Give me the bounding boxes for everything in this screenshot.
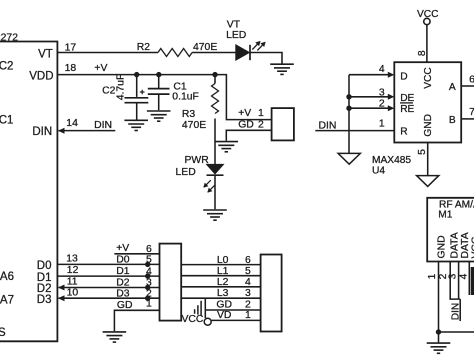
svg-text:5: 5 <box>417 149 428 155</box>
svg-text:1: 1 <box>245 310 251 321</box>
svg-text:VCC: VCC <box>182 314 204 325</box>
svg-text:C2: C2 <box>102 86 116 97</box>
svg-text:VT: VT <box>38 48 53 60</box>
svg-text:18: 18 <box>65 63 77 74</box>
svg-text:4: 4 <box>146 266 152 277</box>
svg-text:GD: GD <box>238 120 254 131</box>
svg-text:LED: LED <box>226 30 246 41</box>
svg-text:D: D <box>400 71 407 82</box>
svg-text:14: 14 <box>66 118 78 129</box>
svg-text:R3: R3 <box>182 109 196 120</box>
svg-text:L3: L3 <box>217 288 229 299</box>
svg-text:DIN: DIN <box>319 120 337 131</box>
svg-text:1: 1 <box>427 273 438 279</box>
svg-text:CA6: CA6 <box>0 271 14 283</box>
svg-text:6: 6 <box>245 255 251 266</box>
svg-text:13: 13 <box>66 253 78 264</box>
svg-text:GND: GND <box>436 235 447 258</box>
svg-text:DIN: DIN <box>451 303 462 321</box>
svg-text:RE: RE <box>400 104 414 115</box>
svg-text:DIN: DIN <box>32 126 52 138</box>
svg-text:2: 2 <box>379 98 385 109</box>
svg-text:R: R <box>400 126 407 137</box>
svg-text:3: 3 <box>245 288 251 299</box>
svg-text:1: 1 <box>379 118 385 129</box>
svg-text:D3: D3 <box>116 288 130 299</box>
svg-text:2: 2 <box>258 120 264 131</box>
svg-text:17: 17 <box>65 42 77 53</box>
svg-text:10: 10 <box>67 287 79 298</box>
svg-text:D3: D3 <box>37 294 52 306</box>
svg-text:R2: R2 <box>137 42 151 53</box>
svg-text:6: 6 <box>469 74 474 85</box>
svg-text:7: 7 <box>469 107 474 118</box>
svg-text:4: 4 <box>245 277 251 288</box>
svg-text:3: 3 <box>448 273 459 279</box>
svg-text:L0: L0 <box>217 255 229 266</box>
svg-text:VT: VT <box>227 19 241 30</box>
svg-text:+V: +V <box>116 243 129 254</box>
svg-text:M1: M1 <box>438 209 452 220</box>
svg-text:6: 6 <box>146 244 152 255</box>
svg-text:CA7: CA7 <box>0 294 14 306</box>
svg-text:0.1uF: 0.1uF <box>172 91 199 102</box>
svg-text:DE: DE <box>400 93 414 104</box>
svg-text:VCC: VCC <box>423 67 434 89</box>
svg-text:8: 8 <box>417 50 428 56</box>
svg-text:D1: D1 <box>37 272 52 284</box>
svg-text:GD: GD <box>117 300 133 311</box>
svg-text:VD: VD <box>217 310 231 321</box>
svg-text:1: 1 <box>146 299 152 310</box>
svg-text:GND: GND <box>423 114 434 137</box>
svg-text:11: 11 <box>67 277 78 288</box>
svg-text:D0: D0 <box>116 255 130 266</box>
svg-text:DIN: DIN <box>94 120 112 131</box>
svg-text:5: 5 <box>146 255 152 266</box>
svg-text:5: 5 <box>245 266 251 277</box>
svg-text:A: A <box>449 82 456 93</box>
svg-text:3: 3 <box>146 278 152 289</box>
svg-text:SC2: SC2 <box>0 61 13 73</box>
svg-text:D2: D2 <box>116 278 130 289</box>
svg-text:DATA: DATA <box>460 232 471 258</box>
svg-text:1: 1 <box>258 108 264 119</box>
svg-text:VCC: VCC <box>417 9 439 20</box>
svg-text:VDD: VDD <box>29 70 53 82</box>
svg-text:12: 12 <box>67 265 79 276</box>
svg-text:U4: U4 <box>372 165 385 176</box>
svg-text:B: B <box>449 115 456 126</box>
svg-text:DATA: DATA <box>449 232 460 258</box>
svg-text:SC1: SC1 <box>0 115 13 127</box>
svg-text:4: 4 <box>459 273 470 279</box>
svg-text:LED: LED <box>176 167 196 178</box>
svg-text:VCC: VCC <box>470 236 474 258</box>
svg-text:4.7uF: 4.7uF <box>116 74 127 101</box>
svg-text:D1: D1 <box>116 266 130 277</box>
svg-text:L2: L2 <box>217 277 229 288</box>
svg-text:470E: 470E <box>182 120 206 131</box>
svg-text:S: S <box>0 327 6 339</box>
svg-text:+V: +V <box>238 108 251 119</box>
svg-text:PT2272: PT2272 <box>0 33 18 44</box>
svg-text:4: 4 <box>379 64 385 75</box>
svg-text:PWR: PWR <box>185 155 210 166</box>
svg-text:+V: +V <box>94 63 107 74</box>
svg-text:L1: L1 <box>217 266 229 277</box>
svg-text:3: 3 <box>379 87 385 98</box>
svg-text:GD: GD <box>216 300 232 311</box>
svg-text:470E: 470E <box>193 42 217 53</box>
svg-text:D0: D0 <box>37 260 52 272</box>
svg-text:2: 2 <box>245 300 251 311</box>
